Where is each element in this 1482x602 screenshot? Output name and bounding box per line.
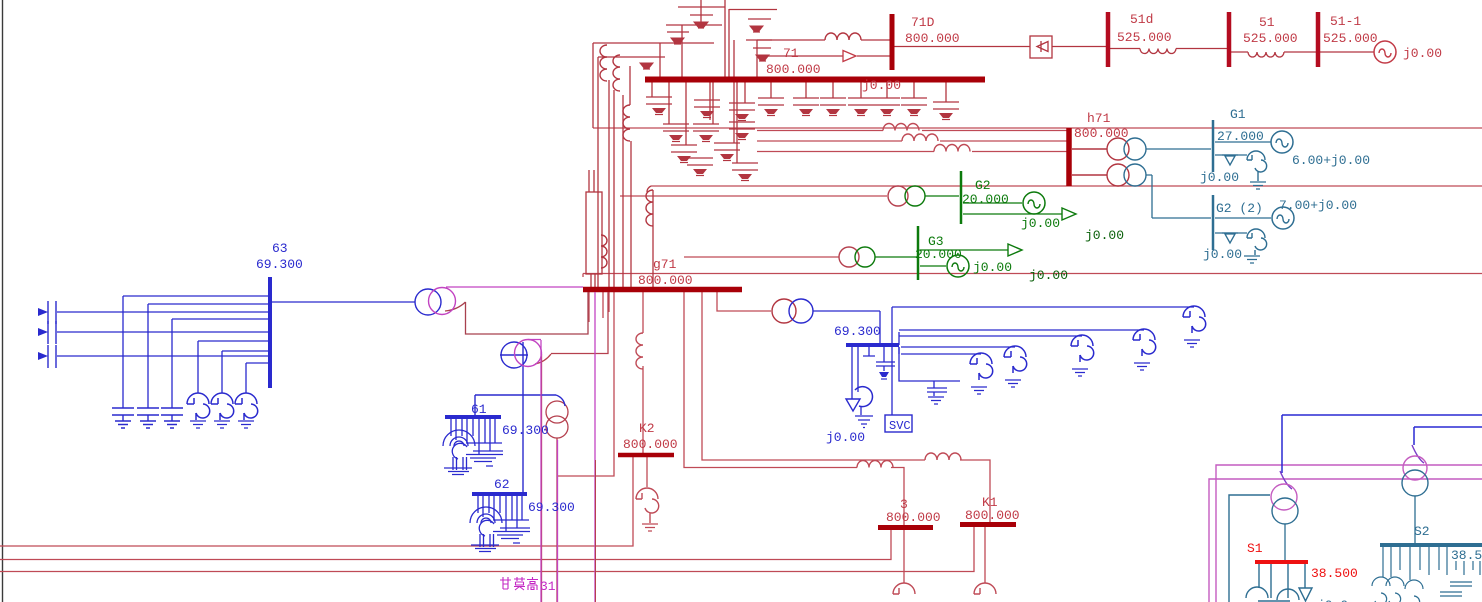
svg-text:20.000: 20.000 <box>962 192 1009 207</box>
svg-text:j0.0: j0.0 <box>1317 598 1348 602</box>
svg-text:61: 61 <box>471 402 487 417</box>
svg-text:69.300: 69.300 <box>528 500 575 515</box>
svg-text:69.300: 69.300 <box>834 324 881 339</box>
svg-text:69.300: 69.300 <box>502 423 549 438</box>
svg-text:800.000: 800.000 <box>965 508 1020 523</box>
svg-text:800.000: 800.000 <box>766 62 821 77</box>
svg-text:71D: 71D <box>911 15 935 30</box>
svg-text:j0.00: j0.00 <box>1200 170 1239 185</box>
svg-text:38.50: 38.50 <box>1451 548 1482 563</box>
svg-text:525.000: 525.000 <box>1243 31 1298 46</box>
svg-text:j0.00: j0.00 <box>1403 46 1442 61</box>
svg-text:27.000: 27.000 <box>1217 129 1264 144</box>
svg-text:51: 51 <box>1259 15 1275 30</box>
svg-text:71: 71 <box>783 46 799 61</box>
svg-text:20.000: 20.000 <box>915 247 962 262</box>
svg-text:j0.00: j0.00 <box>973 260 1012 275</box>
svg-text:G2 (2): G2 (2) <box>1216 201 1263 216</box>
svg-text:51d: 51d <box>1130 12 1153 27</box>
svg-text:j0.00: j0.00 <box>1029 268 1068 283</box>
svg-text:800.000: 800.000 <box>905 31 960 46</box>
svg-text:525.000: 525.000 <box>1117 30 1172 45</box>
svg-text:31: 31 <box>540 579 556 594</box>
svg-text:G2: G2 <box>975 178 991 193</box>
svg-text:62: 62 <box>494 477 510 492</box>
svg-text:38.500: 38.500 <box>1311 566 1358 581</box>
svg-text:S1: S1 <box>1247 541 1263 556</box>
svg-text:7.00+j0.00: 7.00+j0.00 <box>1279 198 1357 213</box>
svg-text:S2: S2 <box>1414 524 1430 539</box>
svg-text:800.000: 800.000 <box>1074 126 1129 141</box>
svg-text:g71: g71 <box>653 257 677 272</box>
svg-text:j0.00: j0.00 <box>826 430 865 445</box>
svg-text:525.000: 525.000 <box>1323 31 1378 46</box>
svg-text:800.000: 800.000 <box>886 510 941 525</box>
svg-text:800.000: 800.000 <box>638 273 693 288</box>
svg-text:69.300: 69.300 <box>256 257 303 272</box>
svg-text:G1: G1 <box>1230 107 1246 122</box>
svg-text:j0.00: j0.00 <box>1203 247 1242 262</box>
svg-text:h71: h71 <box>1087 111 1111 126</box>
svg-text:51-1: 51-1 <box>1330 14 1361 29</box>
svg-text:j0.00: j0.00 <box>1085 228 1124 243</box>
svg-text:K2: K2 <box>639 421 655 436</box>
svg-text:63: 63 <box>272 241 288 256</box>
svg-text:800.000: 800.000 <box>623 437 678 452</box>
svg-text:6.00+j0.00: 6.00+j0.00 <box>1292 153 1370 168</box>
svg-text:j0.00: j0.00 <box>862 78 901 93</box>
svg-text:SVC: SVC <box>889 419 911 433</box>
svg-text:j0.00: j0.00 <box>1021 216 1060 231</box>
